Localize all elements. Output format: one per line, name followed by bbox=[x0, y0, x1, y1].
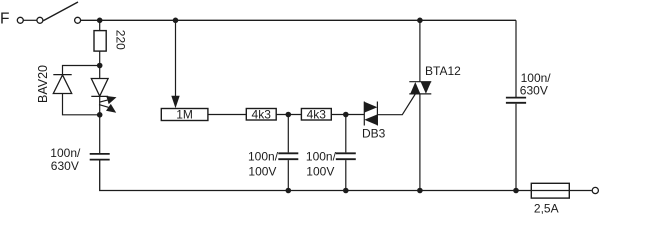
resistor R3 4k3 bbox=[301, 109, 331, 121]
capacitor C3 100n/100V bbox=[336, 153, 356, 159]
label BTA12 bbox=[425, 64, 461, 78]
capacitor C2 100n/100V bbox=[278, 153, 298, 159]
label R3 4k3 bbox=[307, 107, 327, 121]
label C1 value bbox=[50, 146, 81, 173]
switch S1 throw bbox=[75, 17, 81, 23]
svg-text:100V: 100V bbox=[248, 164, 276, 178]
wire triac A1 bbox=[419, 94, 421, 191]
node junction triac bottom bbox=[417, 188, 423, 194]
svg-text:2,5A: 2,5A bbox=[534, 201, 559, 215]
label R2 4k3 bbox=[252, 107, 272, 121]
switch S1 blade bbox=[43, 2, 78, 21]
wire C4 to rail bbox=[515, 104, 517, 191]
svg-text:630V: 630V bbox=[520, 84, 548, 98]
wire C2 to rail bbox=[287, 160, 289, 190]
svg-text:F: F bbox=[0, 10, 9, 27]
diac DB3 bbox=[364, 102, 377, 126]
label C2 value bbox=[248, 149, 279, 178]
node junction top triac bbox=[417, 18, 423, 24]
switch S1 pole bbox=[37, 17, 43, 23]
svg-text:BTA12: BTA12 bbox=[425, 64, 461, 78]
resistor 220 bbox=[94, 31, 106, 51]
svg-text:100V: 100V bbox=[306, 164, 334, 178]
svg-text:100n/: 100n/ bbox=[50, 146, 81, 160]
wire C3 to rail bbox=[345, 160, 347, 190]
potentiometer P1 1M bbox=[161, 109, 208, 121]
svg-text:4k3: 4k3 bbox=[252, 107, 272, 121]
node junction C2 top bbox=[286, 112, 292, 118]
wire diode to bottom node bbox=[63, 94, 100, 115]
node junction LED bottom bbox=[97, 112, 103, 118]
capacitor C4 100n/630V bbox=[506, 98, 526, 103]
label DB3 bbox=[362, 126, 386, 140]
wire pot to R2 bbox=[208, 114, 246, 116]
wire C3 down bbox=[345, 115, 347, 153]
wire C1 to bottom rail bbox=[100, 160, 592, 190]
label F bbox=[0, 10, 9, 27]
svg-text:220: 220 bbox=[114, 30, 128, 50]
label fuse rating bbox=[534, 201, 559, 215]
wire triac A2 bbox=[419, 20, 421, 81]
wire C2 down bbox=[287, 115, 289, 153]
wire pot wiper bbox=[175, 20, 177, 98]
wire node to capacitor C1 bbox=[99, 115, 101, 153]
label 1M bbox=[176, 108, 193, 122]
wire junction to resistor bbox=[99, 20, 101, 30]
resistor R2 4k3 bbox=[246, 109, 276, 121]
wire top rail bbox=[81, 19, 516, 21]
node output terminal bbox=[592, 187, 598, 193]
node junction C3 bottom bbox=[343, 188, 349, 194]
wire right side down bbox=[515, 20, 517, 97]
diode BAV20 bbox=[53, 75, 71, 94]
label C3 value bbox=[306, 149, 337, 178]
wire F to switch bbox=[23, 19, 37, 21]
fuse F1 2,5A bbox=[531, 183, 569, 198]
svg-text:DB3: DB3 bbox=[362, 126, 386, 140]
svg-text:100n/: 100n/ bbox=[306, 149, 337, 163]
svg-text:4k3: 4k3 bbox=[307, 107, 327, 121]
capacitor C1 100n/630V bbox=[90, 154, 110, 160]
wire C4 top bbox=[515, 96, 517, 98]
LED arrows bbox=[99, 96, 117, 113]
svg-text:100n/: 100n/ bbox=[521, 71, 552, 85]
node junction C2 bottom bbox=[286, 188, 292, 194]
node junction top left bbox=[97, 18, 103, 24]
wire resistor to node bbox=[99, 51, 101, 65]
svg-text:BAV20: BAV20 bbox=[36, 65, 50, 103]
svg-text:100n/: 100n/ bbox=[248, 149, 279, 163]
node junction C4 bottom bbox=[513, 188, 519, 194]
wire diac to gate bbox=[377, 94, 415, 115]
node junction top pot bbox=[173, 18, 179, 24]
potentiometer P1 wiper arrow bbox=[171, 96, 179, 109]
triac BTA12 bbox=[409, 82, 431, 94]
node junction LED top bbox=[97, 63, 103, 69]
LED D2 bbox=[91, 66, 108, 115]
label 220 bbox=[114, 30, 128, 50]
wire to diode branch bbox=[63, 66, 100, 75]
wire R3 to diac bbox=[331, 114, 364, 116]
svg-text:1M: 1M bbox=[176, 108, 193, 122]
wire R2 to node bbox=[276, 114, 301, 116]
node junction C3 top bbox=[343, 112, 349, 118]
label C4 value bbox=[520, 71, 551, 98]
svg-text:630V: 630V bbox=[51, 159, 79, 173]
node F terminal bbox=[17, 17, 23, 23]
label BAV20 bbox=[36, 65, 50, 103]
